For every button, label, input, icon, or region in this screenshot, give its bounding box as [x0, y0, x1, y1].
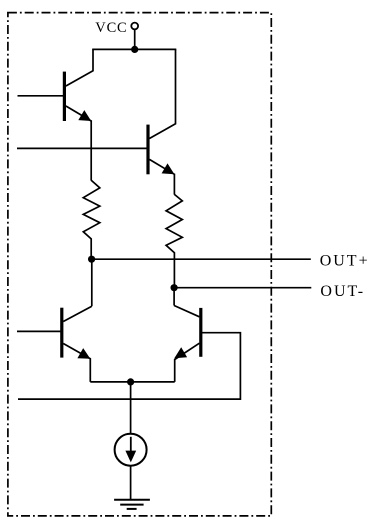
wire Q3 base lead — [17, 330, 62, 332]
wire Q1 emitter down to R1 — [90, 120, 92, 180]
wire OUT- node down to Q4 collector — [173, 288, 175, 306]
wire VCC terminal to top rail — [134, 29, 136, 49]
junction dot tail node — [127, 378, 134, 385]
wire Q4 base to feedback loop — [18, 333, 240, 399]
transistor Q1 (top-left NPN) — [64, 49, 93, 121]
svg-text:OUT-: OUT- — [320, 283, 365, 300]
junction dot node OUT- — [171, 284, 178, 291]
wire current source to ground — [130, 466, 132, 500]
wire emitter bus of diff pair — [90, 381, 174, 383]
junction dot node OUT+ — [88, 256, 95, 263]
ground symbol — [114, 500, 150, 509]
junction dot on VCC rail — [131, 46, 138, 53]
resistor R1 (left load) — [83, 180, 100, 259]
wire OUT+ line — [92, 258, 311, 260]
wire Q1 base lead — [18, 95, 65, 97]
wire Q2 base lead — [17, 147, 148, 149]
wire tail node to current source — [130, 382, 132, 434]
transistor Q3 (bottom-left NPN of diff pair) — [62, 306, 92, 382]
transistor Q2 (second NPN) — [148, 49, 176, 174]
wire top rail — [92, 48, 176, 50]
transistor Q4 (bottom-right NPN, mirrored) — [174, 306, 201, 382]
svg-text:VCC: VCC — [95, 20, 127, 36]
VCC terminal (open circle) — [131, 23, 138, 30]
resistor R2 (right load) — [166, 194, 182, 287]
wire Q2 emitter down to R2 — [173, 174, 175, 195]
current source I1 — [115, 434, 147, 466]
wire OUT- line — [174, 287, 311, 289]
svg-text:OUT+: OUT+ — [320, 252, 370, 269]
wire OUT+ node down to Q3 collector — [91, 259, 93, 306]
